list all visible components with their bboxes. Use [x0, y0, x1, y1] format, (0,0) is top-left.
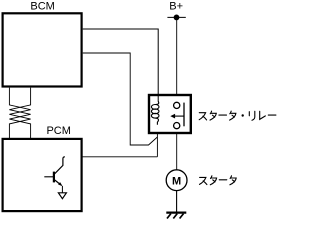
- transistor Q1 emitter lead with arrow: [55, 180, 61, 185]
- リ: [249, 111, 255, 120]
- label starter relay (katakana): [199, 111, 276, 120]
- transistor Q1 base lead: [44, 176, 53, 178]
- ・: [242, 114, 244, 116]
- relay contact circle bottom: [174, 123, 180, 129]
- box BCM: [3, 13, 82, 86]
- emitter ground triangle: [58, 193, 66, 199]
- transistor Q1 emitter wire down: [61, 186, 63, 193]
- box PCM: [3, 139, 82, 211]
- twisted pair wire A (BCM to PCM): [9, 88, 30, 139]
- タ: [230, 176, 236, 185]
- relay coil winding: [155, 101, 159, 104]
- transistor Q1 base bar: [53, 172, 55, 183]
- wire B+ down to relay contact top: [176, 17, 178, 102]
- タ: [210, 111, 216, 120]
- relay armature bar: [183, 103, 185, 127]
- wire motor to ground: [176, 191, 178, 212]
- relay coil pin top (inside box): [157, 95, 159, 102]
- node B+ terminal bar: [167, 16, 185, 18]
- svg-text:BCM: BCM: [30, 1, 54, 13]
- svg-text:B+: B+: [169, 1, 183, 13]
- twisted pair wire B (BCM to PCM): [9, 88, 30, 139]
- motor M (starter) circle: [166, 170, 187, 191]
- label starter (katakana): [200, 176, 237, 185]
- chassis ground: [166, 212, 186, 214]
- wire relay contact bottom to starter motor: [176, 129, 178, 170]
- wire from BCM pin2 down and to relay coil bottom (diagonal): [83, 53, 158, 145]
- node B+ junction dot: [174, 15, 180, 21]
- relay box (starter relay): [149, 95, 191, 133]
- レ: [260, 111, 266, 119]
- ー: [268, 114, 276, 116]
- transistor Q1 collector lead: [55, 157, 65, 174]
- wire from BCM pin1 to relay coil top: [83, 29, 159, 101]
- relay contact circle top: [174, 102, 180, 108]
- relay armature arrow: [175, 115, 184, 117]
- svg-text:PCM: PCM: [46, 125, 70, 137]
- wire transistor collector to relay coil bottom node: [65, 156, 158, 158]
- タ: [230, 111, 236, 120]
- タ: [210, 176, 216, 185]
- ス: [199, 113, 206, 120]
- svg-text:M: M: [172, 175, 181, 187]
- ー: [219, 179, 227, 181]
- ス: [200, 177, 207, 184]
- wire relay coil bottom pin down to transistor collector node: [156, 125, 158, 157]
- ー: [219, 114, 227, 116]
